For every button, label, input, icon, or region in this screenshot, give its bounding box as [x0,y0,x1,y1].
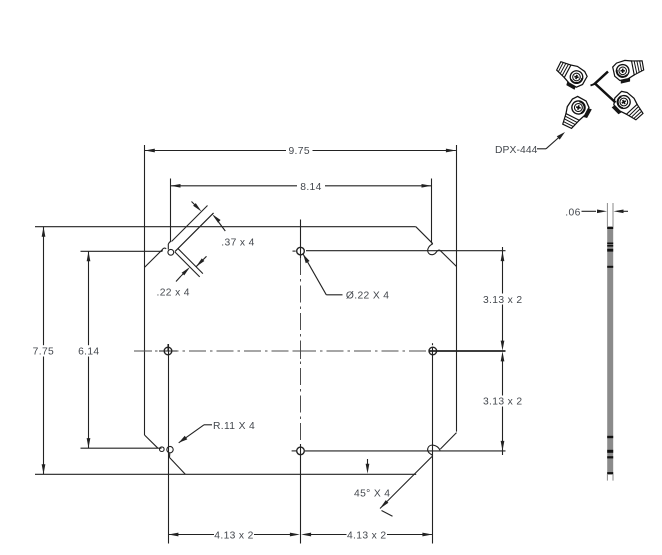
svg-text:4.13 x 2: 4.13 x 2 [214,531,253,542]
bottom hole extension to 3.13 dim [305,450,506,452]
dim 6.14 extension lines [81,251,163,448]
svg-text:.37 x 4: .37 x 4 [221,237,254,248]
svg-text:45° X 4: 45° X 4 [354,489,390,500]
svg-text:.22 x 4: .22 x 4 [157,287,190,298]
side view extension lines [607,203,613,481]
top-right chamfer upper segment [416,227,433,244]
dim 8.14 extension lines [171,179,432,244]
dim 3.13 line [502,247,504,455]
side view edge ticks [607,227,613,475]
svg-text:6.14: 6.14 [78,347,99,358]
svg-text:Ø.22 X 4: Ø.22 X 4 [346,291,389,302]
bottom-left chamfer lower segment [170,458,186,475]
dim 3.13 lower text [483,397,522,408]
right hole vertical line to 4.13 extension [432,347,434,544]
top-left chamfer upper segment with .22 extension [175,213,214,252]
dim .37 upper arrow [192,202,202,212]
connector clamp right [608,89,646,126]
dim 8.14 text [300,182,321,193]
plate bottom edge [35,473,416,475]
dim 9.75 arrows [145,149,456,153]
left hole vertical line to 4.13 extension [168,344,170,544]
dim 7.75 line [43,227,45,475]
dim .37 lower arrow with leader [212,214,225,231]
top hole vertical line [300,220,302,259]
bottom-right chamfer upper segment [440,433,456,449]
hole right (Dia .22) [429,343,437,355]
dim .22 upper arrow [196,256,207,267]
dim 3.13 upper text [483,295,522,306]
dim 7.75 arrows [42,227,46,475]
dim 4.13 line [168,534,432,536]
bottom-left corner relief notch R.11 [160,446,174,457]
svg-text:3.13 x 2: 3.13 x 2 [483,397,522,408]
dim 4.13 arrows [168,533,432,537]
left hole horizontal centermark [159,350,177,352]
bottom-left chamfer upper segment [145,435,158,448]
dim 9.75 text [288,146,309,157]
dim .06 lines [582,210,629,212]
plate right edge with 9.75 extension [456,145,458,432]
connector clamp top-right [611,55,647,85]
top-right chamfer lower segment [440,250,457,266]
connector clamp bottom-left [558,94,595,133]
top-left corner relief notch R.11 [162,242,174,256]
dim 45 diagonal line [380,457,432,509]
top-left chamfer lower segment [145,250,163,268]
dim 7.75 text [33,347,54,358]
dim .22 rail lines [175,249,203,277]
leader R.11 text [213,421,255,432]
svg-text:7.75: 7.75 [33,347,54,358]
top hole left tick [293,250,296,252]
connector clamp top-left [552,57,590,92]
dim .37 text [221,237,254,248]
side view plate body [607,227,613,474]
label DPX-444 leader [537,132,565,149]
svg-text:.06: .06 [565,207,580,218]
dim 4.13 right text [347,531,386,542]
dim 9.75 line [145,150,456,152]
top hole extension to 3.13 dim [306,250,506,252]
hole left (Dia .22) [164,344,172,355]
plate top edge [35,226,416,228]
vertical centerline [300,258,302,444]
bottom hole left tick [292,450,297,452]
dim 8.14 arrows [171,184,432,188]
hole top (Dia .22) [297,247,305,255]
leader dia .22 x 4 [303,254,342,294]
svg-text:8.14: 8.14 [300,182,321,193]
dim .22 lower arrow with leader [176,267,190,282]
svg-text:4.13 x 2: 4.13 x 2 [347,531,386,542]
dim 4.13 left text [214,531,253,542]
dim 6.14 arrows [87,251,91,448]
svg-text:R.11 X 4: R.11 X 4 [213,421,255,432]
dim 8.14 line [171,185,432,187]
label DPX-444 text [495,145,538,156]
hole bottom (Dia .22) [297,447,305,455]
dim 6.14 line [88,251,90,448]
dim .06 arrows [597,209,624,213]
bottom-right corner relief notch R.11 [428,445,441,457]
dim .37 rail lines [172,206,214,252]
svg-text:3.13 x 2: 3.13 x 2 [483,295,522,306]
dim .06 text [565,207,580,218]
svg-text:DPX-444: DPX-444 [495,145,538,156]
dim 45 text [354,489,390,500]
svg-text:9.75: 9.75 [288,146,309,157]
dim 3.13 arrows [501,251,505,451]
dim 45 vertical arrow [366,459,370,474]
horizontal centerline [134,350,441,352]
dim .22 text [157,287,190,298]
top-right corner relief notch R.11 [428,244,440,255]
leader dia .22 text [346,291,389,302]
connector center pin [591,72,616,103]
bottom hole vertical line [300,444,302,544]
dim 6.14 text [78,347,99,358]
leader R.11 [179,425,212,443]
dim 45 diagonal arrow [380,500,393,516]
plate left edge with 9.75 extension [144,145,146,435]
right hole extension to 3.13 dim [429,350,506,352]
